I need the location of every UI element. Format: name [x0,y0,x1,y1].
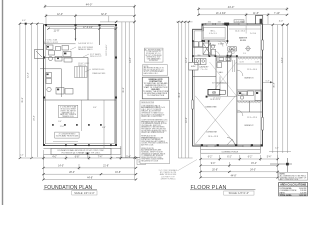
wall corner dark blobs top [202,24,228,42]
floor second top dimension line [197,13,288,24]
living room X diagonals [195,96,235,144]
svg-text:BDRM #2: BDRM #2 [245,125,255,127]
svg-text:12'-0": 12'-0" [57,13,63,16]
svg-text:28'-0": 28'-0" [69,172,75,174]
interior wall: wic bottom [202,40,227,42]
svg-text:10'-8 x 11'-4: 10'-8 x 11'-4 [210,99,220,101]
interior wall: bath bottom / kitchen top [193,55,237,57]
svg-text:EXTERIOR: EXTERIOR [149,60,158,62]
svg-text:3050: 3050 [208,21,212,23]
foundation patio edge [53,140,78,142]
laundry fixtures [195,59,207,65]
interior wall: bath/laundry divider [193,47,209,49]
door arcs [222,41,243,116]
interior wall: left wall notch vertical [201,29,203,41]
svg-text:7'-10": 7'-10" [274,12,280,15]
svg-text:20'-8": 20'-8" [212,169,218,171]
svg-text:CLOS: CLOS [255,62,259,64]
svg-text:35'-8": 35'-8" [274,82,276,88]
svg-text:TREATED SOIL: TREATED SOIL [62,115,74,118]
svg-text:15'-4": 15'-4" [251,163,257,165]
svg-text:7'-0 x 5'-6: 7'-0 x 5'-6 [201,69,208,71]
svg-text:6'-8 x 11'-0: 6'-8 x 11'-0 [209,33,217,35]
svg-text:DESIGN NOTES: DESIGN NOTES [141,102,155,104]
master bath shower (x-box) [203,43,216,55]
floor plan top wall windows [206,23,247,25]
stoop center node [87,153,89,155]
foundation bottom dimension line 1 [20,156,137,161]
dining header dark box [208,90,220,96]
foundation fixture cluster upper-left [47,45,73,62]
svg-text:35'-8": 35'-8" [22,97,24,103]
right strip bottom node [270,158,292,172]
svg-text:EACH SIDE U.N.O.: EACH SIDE U.N.O. [144,72,159,75]
svg-text:44'-0": 44'-0" [86,3,93,7]
beam line under header [207,95,237,97]
svg-text:11'-5": 11'-5" [253,12,259,15]
svg-text:14'-0": 14'-0" [130,57,132,63]
svg-text:11'-0": 11'-0" [60,126,65,128]
svg-text:VERIFY ALL SPANS IN FIELD: VERIFY ALL SPANS IN FIELD [141,131,165,134]
interior wall: bath2 top [237,89,263,91]
floor plan right dimension strip [263,24,291,154]
interior wall: bedroom separation vertical [236,57,238,146]
floor bottom overall dimension line [199,177,279,179]
water heater box outside left wall [189,62,198,70]
foundation bottom dimension line 3 [42,173,137,175]
master ceiling fan [245,46,251,52]
svg-text:LAUNDRY: LAUNDRY [199,66,209,69]
svg-text:PARALLEL WALLS: PARALLEL WALLS [78,48,93,51]
svg-text:21'-4 3/4": 21'-4 3/4" [216,12,226,15]
svg-text:BDRM #3: BDRM #3 [245,78,255,80]
hall closet marks [216,77,226,91]
foundation interior wall horizontal [44,57,89,59]
svg-text:3050: 3050 [218,21,222,23]
floor bottom dimension line 2 [199,162,279,167]
svg-text:COVERED PORCH: COVERED PORCH [221,152,238,154]
foundation garage slab text [44,39,59,44]
floor overall top dimension line 44'-0" [197,7,288,15]
svg-text:6'-2": 6'-2" [208,156,213,158]
svg-text:4'-0": 4'-0" [279,21,284,23]
svg-text:REF: REF [197,55,200,57]
foundation interior vertical dim line [82,100,105,148]
foundation left bump-out (stoop) [35,50,44,59]
bath2 fixtures [238,91,262,101]
svg-text:6'-2": 6'-2" [227,156,232,158]
svg-text:REQUIRED BY CODE: REQUIRED BY CODE [141,161,159,163]
svg-text:5'-4": 5'-4" [126,156,131,158]
interior wall: wic/bath right [226,24,228,44]
svg-text:3050: 3050 [241,21,245,23]
foundation overall top dimension line 44'-0" [44,5,136,9]
foundation patio note box [55,132,79,138]
bdrm closet band [237,111,263,113]
svg-text:BDRM: BDRM [240,40,246,42]
svg-text:W.I.C.: W.I.C. [211,31,216,33]
floor plan top wall door header (dark) [224,23,229,26]
floor bottom dimension line 1 [199,151,279,177]
small sidewalk note [159,169,178,181]
svg-text:FOOTING W/ (2) #5 REBAR CONT.: FOOTING W/ (2) #5 REBAR CONT. TYP. U.N.O… [62,152,101,155]
svg-text:44'-0": 44'-0" [228,5,235,9]
floor plan chimney bump [256,16,263,25]
foundation bottom dimension line 2 [42,164,137,170]
wall nodes on bath wall [192,40,228,57]
misc tiny window labels top wall [208,21,245,23]
svg-text:CLOS: CLOS [239,62,243,64]
floor scale box [224,191,254,195]
floor plan small label box above top wall [234,20,244,23]
svg-text:16'-0 x 13'-8: 16'-0 x 13'-8 [208,136,218,138]
interior wall: hall vertical [215,56,217,90]
svg-text:BATH 2: BATH 2 [241,93,247,96]
svg-text:1,652 SF: 1,652 SF [299,195,308,197]
svg-text:AIR PER CODE.: AIR PER CODE. [141,144,154,147]
foundation appliance boxes left middle [40,69,73,97]
hall wall vertical [227,56,229,96]
svg-text:4'-0": 4'-0" [275,148,279,150]
floor plan right wall windows [262,117,264,130]
foundation interior wall vertical mid [87,58,89,101]
door header dark marks on kitchen wall [209,55,238,57]
svg-text:17'-6 1/2": 17'-6 1/2" [83,26,93,29]
svg-text:TO CONSTRUCTION: TO CONSTRUCTION [147,95,165,97]
foundation right dimension strip [116,22,140,159]
svg-text:21'-8": 21'-8" [103,165,109,167]
right wall interior dim pointer [263,81,273,83]
svg-text:14'-4 x 13'-0: 14'-4 x 13'-0 [235,31,245,33]
svg-text:HVAC: HVAC [191,65,197,68]
svg-text:SCALE: 1/4"=1'-0": SCALE: 1/4"=1'-0" [229,192,250,195]
note box A [144,48,163,62]
foundation interior wall vertical right [99,25,101,45]
closet scallop band [237,57,263,64]
foundation pier row [52,124,102,126]
kitchen/dining ceiling cross [210,62,237,96]
foundation interior top dimension line [47,25,117,41]
svg-text:35'-8": 35'-8" [179,92,181,98]
foundation stair/ladder detail [75,67,88,78]
porch door leaf and arc [227,138,235,146]
svg-text:SLOPE TO DOOR: SLOPE TO DOOR [44,42,59,44]
svg-text:16'-8": 16'-8" [186,117,188,123]
master bath double vanity [228,47,237,56]
svg-text:9'-0": 9'-0" [211,163,216,165]
svg-text:44'-8": 44'-8" [87,177,93,179]
note box bottom-right [279,172,308,181]
svg-text:14'-0": 14'-0" [282,57,284,63]
sheet left border line [2,0,4,205]
svg-text:8'-0": 8'-0" [93,107,97,109]
svg-text:FLOOR PLAN: FLOOR PLAN [191,185,227,191]
wic room inner outline [203,27,225,39]
porch posts [201,144,263,146]
foundation fixture area top line [44,43,76,45]
foundation dim extension verticals [44,150,135,180]
area calculations table [279,183,308,197]
svg-text:KITCHEN: KITCHEN [208,45,217,47]
svg-text:11'-5 x 12'-0: 11'-5 x 12'-0 [247,117,257,119]
svg-text:GIRDER 3-2x10: GIRDER 3-2x10 [92,69,104,71]
svg-text:14'-0": 14'-0" [58,165,64,167]
svg-text:4'-0": 4'-0" [22,20,26,22]
svg-text:12'-4": 12'-4" [186,57,188,63]
svg-text:TOTAL AREA: TOTAL AREA [280,194,293,197]
svg-text:11'-9": 11'-9" [54,30,60,33]
foundation bottom stoop band [43,146,120,154]
svg-text:LIVING RM: LIVING RM [206,132,217,134]
svg-text:9'-4 CLG: 9'-4 CLG [250,33,257,35]
svg-text:2x10 FJ AT 16" O.C.: 2x10 FJ AT 16" O.C. [78,42,94,45]
design notes box D [140,101,170,164]
svg-text:HALL: HALL [219,71,224,74]
svg-text:SCALE: 1/4"=1'-0": SCALE: 1/4"=1'-0" [74,192,95,195]
foundation interior wall vertical [75,25,77,41]
svg-text:6'-2": 6'-2" [248,156,253,158]
svg-text:3'-0: 3'-0 [243,53,246,55]
svg-text:GD: GD [212,92,216,95]
svg-text:44'-8": 44'-8" [231,175,237,177]
porch below bottom wall [201,146,261,153]
svg-text:PIPE COL TYP: PIPE COL TYP [90,56,102,58]
svg-text:VERIFY ALL CONDITIONS: VERIFY ALL CONDITIONS [141,115,162,118]
foundation slab note box [58,105,77,118]
note box B [143,65,168,76]
foundation right-strip top tick line [100,16,136,23]
svg-text:SLOPE AWAY FROM HOUSE: SLOPE AWAY FROM HOUSE [56,134,79,137]
svg-text:7'-4": 7'-4" [98,156,103,158]
svg-text:4'-0": 4'-0" [52,156,57,158]
floor plan left wall window [192,100,194,109]
svg-text:CRAWL ACCESS: CRAWL ACCESS [92,72,106,75]
svg-text:ANY CONSTRUCTION: ANY CONSTRUCTION [280,178,299,181]
foundation bottom tick label box [137,158,146,165]
svg-text:DROP SLAB 4": DROP SLAB 4" [105,44,108,56]
svg-text:32'-0": 32'-0" [101,13,107,16]
kitchen counters [217,57,231,68]
svg-text:3'-4": 3'-4" [58,121,62,123]
foundation scale box [72,191,97,195]
svg-text:DINING RM: DINING RM [206,107,217,109]
svg-text:15'-8": 15'-8" [265,80,269,82]
svg-text:AREA CALCULATIONS: AREA CALCULATIONS [280,184,306,187]
pantry shelf lines [233,60,235,72]
bath small vanity upper-left [194,42,203,47]
svg-text:(VERIFY IN FIELD): (VERIFY IN FIELD) [161,179,176,181]
foundation second top dimension line [45,6,136,24]
svg-text:24'-0": 24'-0" [250,169,256,171]
foundation left dimension strip [19,23,44,159]
foundation plan outer wall [44,25,117,146]
interior wall: master bottom / closet band [226,56,263,58]
foundation stoop note box [51,148,111,154]
svg-text:35'-8": 35'-8" [123,87,125,93]
svg-text:4'-6": 4'-6" [20,155,24,157]
svg-text:12'-4": 12'-4" [28,72,30,78]
svg-text:6'-8": 6'-8" [75,156,80,158]
master interior dim line [229,26,261,34]
svg-text:16'-8": 16'-8" [115,172,121,174]
foundation bottom overall dimension line [42,179,137,181]
foundation wall piers (dark squares) [43,24,117,146]
general note box C [142,77,169,99]
foundation tiny leader labels upper [78,42,106,75]
bath door arcs and tiny labels [215,41,224,56]
floor plan outer wall [193,24,263,146]
floor plan left dimension strip [176,21,192,158]
floor plan bottom wall windows [207,145,251,147]
svg-text:5'-4": 5'-4" [267,156,272,158]
svg-text:23'-4": 23'-4" [34,115,36,121]
svg-text:BATH: BATH [230,48,235,51]
svg-text:11'-5 x 10'-0: 11'-5 x 10'-0 [247,69,257,71]
interior wall: laundry bottom [193,76,216,78]
interior wall: laundry right vertical [208,41,210,56]
foundation interior wall horizontal lower [44,99,117,101]
floor bottom dimension line 3 [199,171,279,173]
interior wall: bath2 bottom [237,100,263,102]
